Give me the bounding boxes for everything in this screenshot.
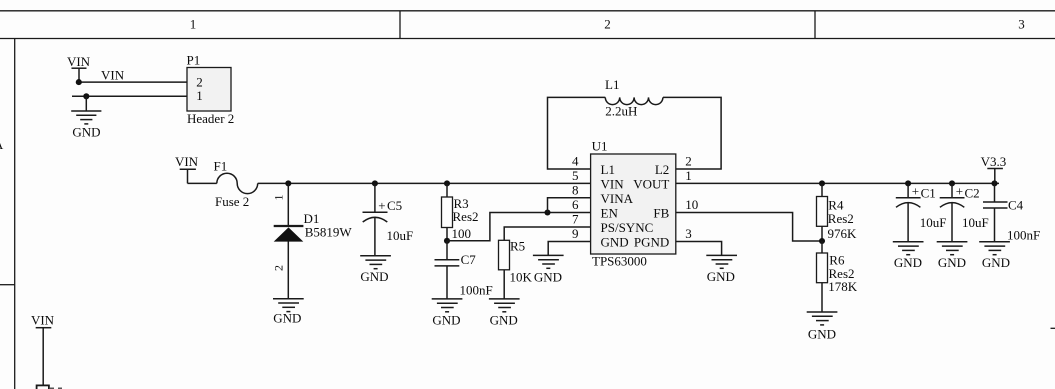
svg-text:TPS63000: TPS63000	[592, 254, 647, 269]
IC U1 TPS63000	[591, 139, 676, 269]
wire U1 pin4 to L1 left	[548, 97, 606, 169]
svg-text:L1: L1	[601, 162, 615, 177]
svg-text:5: 5	[572, 168, 579, 183]
ground at U1 pin9	[533, 255, 564, 284]
svg-text:C5: C5	[387, 198, 402, 213]
ground under C4	[979, 242, 1010, 270]
connector P1	[187, 53, 235, 126]
diode D1 B5819W	[272, 183, 353, 298]
svg-text:1: 1	[190, 17, 197, 32]
wire GND to P1 pin 1	[72, 95, 187, 97]
row divider tick left	[0, 284, 15, 286]
svg-text:976K: 976K	[828, 226, 858, 241]
svg-text:+: +	[378, 198, 385, 213]
ground under C7	[432, 299, 463, 328]
svg-text:P1: P1	[187, 53, 201, 68]
svg-text:U1: U1	[592, 139, 608, 154]
svg-text:10: 10	[685, 197, 698, 212]
junction dot R3 bottom node	[444, 238, 450, 244]
capacitor C4	[983, 183, 1040, 242]
svg-text:VIN: VIN	[175, 154, 199, 169]
ground under C1	[893, 242, 924, 270]
junction dot R4 top	[819, 180, 825, 186]
power port VIN (bottom left)	[31, 312, 55, 385]
svg-text:178K: 178K	[828, 279, 858, 294]
svg-text:4: 4	[572, 154, 579, 169]
D1 cathode bar	[274, 225, 304, 227]
right edge tick	[1051, 327, 1055, 329]
junction dot	[76, 79, 82, 85]
svg-text:GND: GND	[273, 311, 301, 326]
svg-text:VIN: VIN	[601, 176, 625, 191]
wire main VIN rail to U1	[258, 182, 591, 184]
wire VIN port to fuse F1	[188, 182, 217, 184]
svg-text:GND: GND	[808, 327, 836, 342]
power port V3.3	[981, 154, 1007, 183]
sheet border outer top line	[0, 10, 1055, 12]
svg-text:1: 1	[272, 195, 286, 201]
svg-text:VOUT: VOUT	[633, 176, 669, 191]
svg-text:GND: GND	[534, 269, 562, 284]
svg-text:R5: R5	[510, 239, 525, 254]
junction dot	[83, 93, 89, 99]
svg-text:B5819W: B5819W	[305, 225, 353, 240]
svg-text:10uF: 10uF	[962, 215, 989, 230]
resistor R4	[817, 183, 858, 241]
svg-text:VINA: VINA	[601, 191, 634, 206]
svg-text:8: 8	[572, 183, 579, 198]
svg-text:V3.3: V3.3	[981, 154, 1007, 169]
svg-text:GND: GND	[432, 313, 460, 328]
svg-text:100: 100	[452, 226, 472, 241]
svg-text:GND: GND	[72, 125, 100, 140]
capacitor C2 (polarized)	[940, 183, 989, 241]
svg-text:10uF: 10uF	[920, 215, 947, 230]
resistor R6	[817, 241, 858, 312]
svg-text:1: 1	[685, 168, 692, 183]
wire EN to VINA	[548, 198, 591, 213]
svg-text:Fuse 2: Fuse 2	[215, 194, 249, 209]
svg-text:3: 3	[1018, 17, 1025, 32]
svg-text:2: 2	[685, 154, 692, 169]
junction dot C1	[905, 180, 911, 186]
sheet border left vertical	[14, 39, 16, 389]
svg-text:GND: GND	[360, 269, 388, 284]
svg-text:PGND: PGND	[634, 234, 669, 249]
wire U1 pin9 GND	[548, 242, 590, 256]
svg-text:VIN: VIN	[101, 68, 125, 83]
svg-text:2: 2	[604, 17, 611, 32]
svg-text:6: 6	[572, 197, 579, 212]
wire VOUT rail	[676, 182, 999, 184]
svg-text:C7: C7	[461, 252, 477, 267]
power port VIN (at fuse)	[175, 154, 199, 184]
junction dot R3 top	[444, 180, 450, 186]
resistor R3	[442, 183, 479, 241]
svg-text:C4: C4	[1008, 197, 1024, 212]
resistor R5	[499, 227, 591, 299]
sheet border inner top line	[0, 38, 1055, 40]
svg-text:100nF: 100nF	[460, 283, 493, 298]
ground under D1	[273, 299, 304, 326]
svg-text:+: +	[912, 184, 919, 199]
svg-text:10uF: 10uF	[387, 228, 414, 243]
svg-text:C1: C1	[921, 186, 936, 201]
svg-text:+: +	[956, 184, 963, 199]
ground under R6	[807, 312, 838, 342]
wire R3 node to EN	[447, 213, 591, 241]
wire VIN to P1 pin 2	[79, 81, 187, 83]
junction dot C2	[949, 180, 955, 186]
svg-text:Header 2: Header 2	[187, 111, 234, 126]
svg-text:VIN: VIN	[67, 54, 91, 69]
svg-text:PS/SYNC: PS/SYNC	[601, 220, 654, 235]
svg-text:3: 3	[685, 226, 692, 241]
ground symbol (top left)	[71, 96, 101, 139]
svg-text:2: 2	[272, 265, 286, 271]
junction dot D1 node	[285, 180, 291, 186]
junction dot FB node	[819, 238, 825, 244]
svg-text:Res2: Res2	[453, 209, 479, 224]
inductor L1	[605, 77, 663, 119]
fuse F1	[214, 159, 258, 210]
F2 label fragment (clipped at bottom edge)	[50, 388, 54, 389]
column divider tick x=400	[399, 11, 401, 39]
svg-text:2.2uH: 2.2uH	[605, 104, 637, 119]
svg-text:L2: L2	[655, 162, 669, 177]
svg-text:FB: FB	[653, 205, 669, 220]
junction dot C5 node	[372, 180, 378, 186]
capacitor C1 (polarized)	[896, 183, 947, 241]
svg-text:EN: EN	[601, 205, 619, 220]
junction dot EN node	[544, 209, 550, 215]
svg-text:GND: GND	[490, 313, 518, 328]
svg-text:7: 7	[572, 212, 579, 227]
svg-text:L1: L1	[605, 77, 619, 92]
fuse F2 body (clipped at bottom)	[37, 385, 49, 389]
svg-text:10K: 10K	[510, 270, 533, 285]
svg-text:C2: C2	[965, 186, 980, 201]
svg-text:VIN: VIN	[31, 312, 55, 327]
power port VIN (top left)	[67, 54, 91, 82]
ground at U1 pin3	[706, 255, 737, 283]
ground under C2	[937, 242, 968, 270]
capacitor C5 (polarized)	[363, 183, 414, 255]
ground under R5	[489, 299, 520, 328]
svg-text:GND: GND	[707, 269, 735, 284]
ground under C5	[360, 256, 391, 284]
wire U1 pin3 PGND	[676, 242, 722, 256]
svg-text:GND: GND	[982, 255, 1010, 270]
svg-text:GND: GND	[601, 234, 629, 249]
svg-text:1: 1	[196, 88, 203, 103]
column divider tick x=815	[814, 11, 816, 39]
svg-text:GND: GND	[894, 255, 922, 270]
svg-text:GND: GND	[938, 255, 966, 270]
svg-text:9: 9	[572, 226, 579, 241]
capacitor C7	[435, 241, 493, 299]
junction dot C4/V3.3	[991, 180, 997, 186]
svg-text:F1: F1	[214, 159, 228, 174]
wire L1 right to U1 pin2	[663, 97, 721, 169]
wire FB feedback	[676, 213, 822, 242]
svg-text:Res2: Res2	[828, 211, 854, 226]
svg-text:100nF: 100nF	[1007, 228, 1040, 243]
